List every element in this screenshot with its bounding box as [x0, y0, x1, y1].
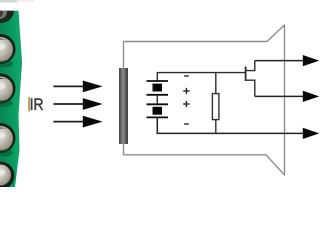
- sensor window / IR filter bar: [119, 68, 128, 144]
- can 5 (partial, bottom): [0, 162, 15, 190]
- wire: top rail (gate line): [157, 73, 245, 81]
- polarity mark minus (E1 top): [184, 75, 189, 77]
- tan cursor bar left of IR: [28, 97, 30, 111]
- enclosure outline (sensor package): [124, 25, 285, 175]
- output arrow pin 2: [303, 91, 320, 102]
- IR arrow 1: [53, 81, 102, 93]
- wire: bottom rail: [157, 117, 303, 133]
- resistor R: [212, 94, 219, 120]
- can 3: [0, 74, 16, 108]
- can 2: [0, 34, 16, 68]
- wire: resistor top lead: [215, 73, 217, 94]
- IR arrow 3: [53, 116, 102, 128]
- wire: left edge behind window: [123, 68, 125, 144]
- output arrow pin 1: [303, 55, 320, 66]
- output arrow pin 3: [303, 128, 320, 139]
- JFET drain stub: [246, 61, 255, 71]
- JFET Q1 channel bar: [245, 67, 247, 82]
- photo: green PCB strip: [0, 11, 22, 187]
- pyro element E1 body: [153, 84, 163, 92]
- polarity mark minus (E2 bottom): [184, 123, 189, 125]
- JFET source stub: [246, 80, 255, 96]
- photo: top edge sliver: [0, 0, 35, 3]
- pyro element E2 body: [153, 107, 163, 115]
- polarity mark plus (E1 bottom): [183, 88, 189, 94]
- pyro element E1 bottom plate: [147, 94, 169, 96]
- wire: link between elements: [156, 95, 158, 105]
- pyro element E2 top plate: [147, 103, 169, 105]
- label IR (drawn as paths): [32, 98, 43, 110]
- polarity mark plus (E2 top): [183, 101, 189, 107]
- can 1 (partial, top): [0, 0, 14, 23]
- pyro element E1 top plate: [147, 80, 169, 82]
- can 4: [0, 123, 16, 157]
- IR arrow 2: [53, 98, 102, 110]
- wire: resistor bottom lead: [215, 120, 217, 134]
- pyro element E2 bottom plate: [147, 116, 169, 118]
- photo: sensor cans on strip: [0, 0, 16, 190]
- wire: source rail to pin 2: [255, 95, 304, 97]
- wire: drain rail to pin 1: [255, 60, 304, 62]
